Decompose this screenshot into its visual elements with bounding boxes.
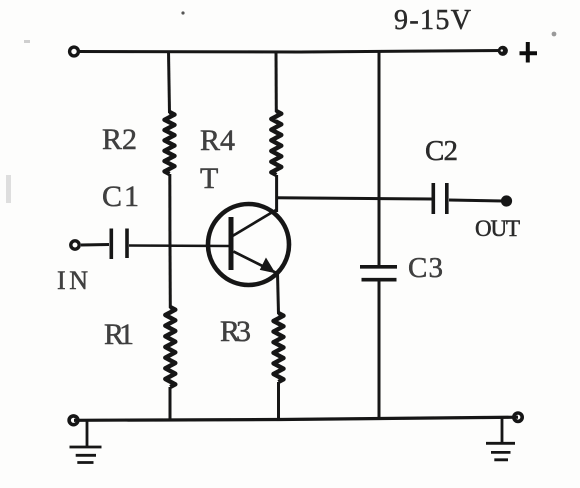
wire emitter down to R3: [278, 273, 279, 314]
wire R1 bottom to ground rail: [169, 387, 172, 420]
svg-text:C 1: C 1: [102, 180, 140, 213]
transistor collector lead: [233, 210, 277, 237]
scan smudge left edge: [6, 175, 11, 203]
wire base node down to R1: [169, 246, 172, 308]
scan speck: [181, 11, 184, 14]
wire from top rail down to R4: [275, 51, 278, 112]
wire R4 bottom to collector node: [275, 175, 278, 212]
capacitor C1 left plate: [110, 229, 114, 260]
svg-text:C2: C2: [425, 135, 459, 167]
svg-text:R3: R3: [220, 315, 252, 348]
capacitor C1 right plate: [125, 229, 129, 259]
wire collector node to C2: [277, 198, 433, 199]
wire top rail down to C3: [378, 51, 381, 267]
wire C3 bottom to ground rail: [378, 280, 381, 419]
terminal bottom-right: [514, 413, 522, 421]
ground symbol right: [486, 418, 515, 460]
svg-text:9-15V: 9-15V: [394, 5, 472, 36]
plus sign: [520, 42, 538, 63]
wire IN to C1: [81, 243, 109, 247]
wire C2 to OUT: [449, 200, 503, 201]
capacitor C3 bottom plate: [362, 278, 397, 282]
terminal bottom-left: [69, 416, 78, 425]
wire R3 bottom to ground rail: [277, 382, 280, 419]
transistor emitter lead: [234, 252, 278, 274]
capacitor C2 left plate: [431, 183, 435, 214]
scan speck: [24, 40, 30, 43]
resistor R4: [271, 111, 281, 175]
wire from top rail down to R2: [169, 51, 170, 113]
svg-text:R2: R2: [102, 123, 138, 156]
wire R2 bottom to base node: [168, 174, 171, 246]
svg-text:R4: R4: [200, 124, 236, 157]
ground symbol left: [70, 420, 102, 463]
transistor T body circle: [208, 204, 289, 285]
capacitor C2 right plate: [445, 183, 449, 214]
terminal top-right (+ supply): [498, 46, 508, 56]
svg-text:R1: R1: [104, 318, 135, 351]
terminal IN: [71, 241, 79, 249]
wire top supply rail: [78, 51, 503, 53]
transistor base bar: [229, 217, 234, 270]
terminal OUT (filled): [501, 195, 512, 206]
terminal top-left: [70, 47, 79, 56]
svg-text:T: T: [200, 162, 219, 195]
emitter arrowhead: [261, 259, 275, 273]
capacitor C3 top plate: [360, 265, 397, 269]
wire C1 to base: [129, 244, 230, 247]
resistor R1: [165, 307, 175, 387]
svg-text:C3: C3: [408, 252, 444, 284]
wire bottom ground rail: [74, 417, 518, 420]
resistor R2: [165, 112, 175, 174]
scan speck: [552, 32, 557, 37]
svg-text:IN: IN: [57, 266, 89, 295]
svg-text:OUT: OUT: [475, 216, 521, 241]
resistor R3: [274, 313, 284, 382]
